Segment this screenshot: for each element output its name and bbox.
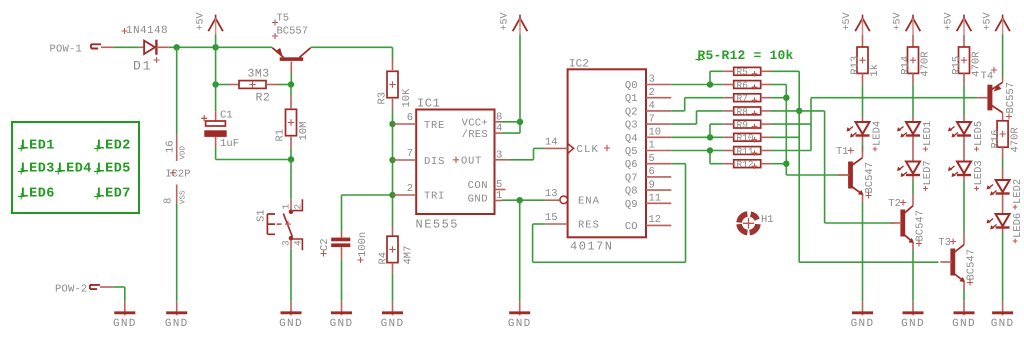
node base junction — [288, 81, 294, 87]
svg-text:16: 16 — [164, 140, 176, 153]
pin Q6 — [646, 163, 671, 165]
node R12 junction — [783, 161, 789, 167]
svg-text:10M: 10M — [298, 122, 310, 141]
pin 6 TRE — [393, 123, 417, 125]
pin Q2 — [646, 110, 671, 112]
svg-text:1: 1 — [496, 190, 502, 202]
svg-text:Q1: Q1 — [625, 93, 638, 105]
pin Q7 — [646, 176, 671, 178]
transistor T1 BC547 — [848, 162, 853, 189]
wire R15 to LED5 — [963, 84, 965, 116]
capacitor C1 1uF polarized — [215, 111, 217, 121]
node Q4 junction — [707, 134, 713, 140]
node TRI junction — [389, 192, 395, 198]
wire R8 to T2 bus — [771, 110, 825, 112]
wire R9 to T4 bus — [771, 123, 811, 125]
svg-text:GND: GND — [851, 318, 875, 330]
svg-text:TRE: TRE — [424, 120, 445, 132]
wire S1 to GND — [290, 249, 292, 301]
svg-text:IC1: IC1 — [417, 97, 440, 111]
wire OUT to CLK — [510, 159, 534, 161]
ground — [1002, 301, 1004, 315]
wire R10 lead — [771, 136, 799, 138]
wire rail to T5 emitter — [216, 46, 273, 48]
pin Q3 — [646, 123, 671, 125]
pin Q4 — [646, 136, 671, 138]
svg-text:LED1: LED1 — [21, 139, 55, 154]
svg-text:R8: R8 — [737, 106, 749, 117]
resistor R4 4M7 — [392, 195, 394, 226]
wire D1 to rail junctions — [169, 46, 216, 48]
svg-text:CO: CO — [625, 221, 638, 233]
wire R13 to LED4 — [862, 84, 864, 116]
IC2 4017N box — [568, 69, 646, 237]
wire POW-1 to D1 — [113, 46, 139, 48]
svg-text:R13: R13 — [850, 56, 862, 75]
wire R5 to T3 bus — [771, 70, 799, 72]
ground — [519, 301, 521, 315]
svg-text:R14: R14 — [900, 56, 912, 75]
svg-text:C1: C1 — [220, 110, 233, 122]
resistor R5 — [734, 67, 761, 75]
wire bus to T2 base — [825, 222, 895, 224]
svg-text:Q8: Q8 — [625, 186, 638, 198]
svg-text:R4: R4 — [378, 252, 390, 265]
ground — [963, 301, 965, 315]
wire T1 emitter to GND — [862, 202, 864, 301]
svg-text:1k: 1k — [869, 64, 881, 77]
wire GND pin to ENA — [502, 199, 545, 201]
svg-text:R5: R5 — [737, 67, 749, 78]
resistor R9 — [734, 120, 761, 128]
wire R14 to LED1 — [912, 84, 914, 116]
pin 2 TRI — [393, 194, 417, 196]
svg-text:3: 3 — [496, 149, 502, 161]
svg-text:7: 7 — [407, 148, 413, 160]
svg-text:Q6: Q6 — [625, 159, 638, 171]
svg-text:Q3: Q3 — [625, 120, 638, 132]
svg-text:R11: R11 — [737, 146, 754, 157]
wire LED6 to GND — [1002, 234, 1004, 302]
svg-text:R16: R16 — [990, 130, 1002, 149]
+5V supply symbol — [513, 18, 528, 31]
LED LED2 — [1002, 167, 1004, 180]
resistor R12 — [734, 160, 761, 168]
svg-text:4: 4 — [496, 123, 502, 135]
svg-text:8: 8 — [496, 111, 502, 123]
resistor R2 3M3 — [228, 84, 240, 86]
svg-text:R7: R7 — [737, 93, 748, 104]
svg-text:GND: GND — [165, 318, 189, 330]
svg-text:GND: GND — [991, 318, 1015, 330]
wire R12 lead — [771, 163, 786, 165]
svg-text:GND: GND — [113, 318, 137, 330]
wire R11 lead — [771, 150, 811, 152]
svg-text:9: 9 — [649, 179, 655, 191]
resistor R16 470R — [997, 121, 1008, 147]
svg-text:3M3: 3M3 — [248, 68, 270, 81]
wire C1 bottom to R1 bottom — [215, 148, 217, 160]
svg-text:7: 7 — [649, 113, 655, 125]
svg-text:GND: GND — [508, 318, 532, 330]
svg-text:LED7: LED7 — [97, 187, 131, 202]
svg-text:4: 4 — [649, 100, 655, 112]
resistor R10 — [734, 133, 761, 141]
svg-text:GND: GND — [381, 318, 405, 330]
svg-text:LED7: LED7 — [922, 160, 934, 185]
wire +5V to T4 emitter — [1002, 35, 1004, 78]
wire T3 emitter to GND — [963, 289, 965, 301]
svg-text:NE555: NE555 — [416, 218, 460, 232]
+5V supply symbol — [855, 18, 870, 31]
wire Q2 to R7 — [671, 110, 684, 112]
svg-text:LED4: LED4 — [872, 121, 884, 146]
svg-text:2: 2 — [293, 204, 304, 210]
svg-text:R2: R2 — [256, 92, 271, 105]
svg-text:BC547: BC547 — [914, 210, 926, 242]
resistor R8 — [734, 107, 761, 115]
svg-text:8: 8 — [163, 198, 175, 204]
svg-text:CON: CON — [468, 180, 488, 192]
svg-text:R3: R3 — [377, 92, 389, 105]
svg-text:IC2: IC2 — [569, 59, 589, 71]
node TRE junction — [389, 121, 395, 127]
wire T5 collector to R3 — [311, 46, 393, 48]
svg-text:2: 2 — [649, 87, 655, 99]
pin Q1 — [646, 97, 671, 99]
svg-text:1N4148: 1N4148 — [126, 25, 168, 37]
svg-text:OUT: OUT — [461, 155, 482, 167]
svg-text:+5V: +5V — [982, 12, 993, 30]
wire junction to IC2P VDD — [176, 47, 178, 134]
svg-text:LED2: LED2 — [1012, 179, 1024, 204]
svg-text:R10: R10 — [737, 133, 754, 144]
resistor R3 10k — [392, 59, 394, 70]
wire bus to T1 base — [786, 174, 850, 176]
svg-text:11: 11 — [649, 193, 662, 205]
svg-text:S1: S1 — [256, 209, 268, 222]
svg-text:IC2P: IC2P — [165, 169, 190, 181]
svg-text:+5V: +5V — [842, 12, 853, 30]
wire POW-2 to GND — [114, 286, 125, 288]
svg-text:14: 14 — [545, 137, 558, 149]
node junction VCC to +5V — [517, 119, 523, 125]
node junction at R2 left — [212, 81, 218, 87]
+5V supply symbol — [906, 18, 921, 31]
node DIS junction — [389, 157, 395, 163]
svg-text:6: 6 — [649, 166, 655, 178]
LED LED7 — [912, 149, 914, 162]
pin 15 RES — [545, 223, 567, 225]
svg-text:C2: C2 — [319, 238, 331, 251]
wire Q5 to R11/R12 — [671, 150, 723, 152]
svg-text:R12: R12 — [737, 159, 754, 170]
wire Q6 to RES net — [671, 163, 685, 165]
svg-text:VDD: VDD — [179, 145, 187, 159]
pin 3 OUT — [495, 159, 511, 161]
transistor T2 BC547 — [900, 210, 905, 237]
svg-text:BC547: BC547 — [864, 162, 876, 194]
LED LED4 — [862, 116, 864, 122]
svg-text:VSS: VSS — [178, 190, 187, 204]
ground — [176, 301, 178, 315]
svg-text:VCC+: VCC+ — [462, 117, 488, 129]
transistor T4 BC557 — [987, 85, 992, 111]
+5V supply symbol — [208, 18, 223, 31]
svg-text:3: 3 — [280, 240, 291, 246]
resistor R6 — [734, 81, 761, 89]
LED LED1 — [912, 116, 914, 122]
wire R1 node to S1 — [290, 160, 292, 200]
pin 13 ENA — [560, 196, 568, 204]
svg-text:6: 6 — [407, 112, 413, 124]
IC1 NE555 box — [416, 110, 494, 215]
svg-text:CLK: CLK — [577, 144, 600, 156]
svg-text:Q9: Q9 — [625, 199, 638, 211]
svg-text:GND: GND — [901, 318, 925, 330]
+5V supply symbol — [995, 18, 1010, 31]
node junction R1/C1/S1 — [288, 156, 294, 162]
svg-text:ENA: ENA — [578, 196, 600, 208]
svg-text:3: 3 — [649, 74, 655, 86]
wire T2 emitter to GND — [912, 250, 914, 301]
svg-text:LED3: LED3 — [21, 162, 55, 177]
svg-text:4017N: 4017N — [570, 240, 614, 254]
pin 12 CO — [646, 224, 671, 226]
svg-text:R1: R1 — [274, 129, 286, 142]
wire Q4 to R9/R10 — [671, 136, 723, 138]
svg-text:Q7: Q7 — [625, 172, 638, 184]
svg-text:T4: T4 — [981, 71, 994, 83]
svg-text:+5V: +5V — [944, 12, 955, 30]
pin 8 VCC+ — [495, 121, 503, 123]
svg-text:15: 15 — [545, 212, 558, 224]
svg-text:LED1: LED1 — [922, 121, 934, 146]
diode D1 1N4148 — [139, 46, 144, 48]
svg-text:1: 1 — [280, 204, 291, 210]
svg-text:100n: 100n — [357, 232, 369, 257]
pin 4 /RES — [495, 132, 503, 134]
IC2P power pins VDD/VSS — [176, 134, 178, 161]
wire LED4 to T1 collector — [862, 142, 864, 152]
green info box LED1-LED7 — [12, 122, 139, 213]
svg-text:R15: R15 — [951, 56, 963, 75]
svg-text:1: 1 — [649, 140, 655, 152]
ground — [124, 301, 126, 315]
svg-text:H1: H1 — [761, 214, 774, 226]
resistor R7 — [734, 94, 761, 102]
wire bus to T4 base — [811, 97, 977, 99]
ground — [862, 301, 864, 315]
wire RES to Q6 — [533, 223, 546, 225]
svg-text:BC547: BC547 — [965, 249, 977, 281]
svg-text:D1: D1 — [133, 59, 153, 74]
wire R16 to LED2 — [1002, 158, 1004, 167]
svg-text:LED2: LED2 — [97, 139, 131, 154]
node Q5 junction — [707, 147, 713, 153]
svg-text:/RES: /RES — [462, 129, 488, 141]
resistor R11 — [734, 147, 761, 155]
svg-text:BC557: BC557 — [1005, 82, 1017, 114]
wire LED7 to T2 collector — [912, 181, 914, 194]
ground — [392, 301, 394, 315]
node Q0 junction — [707, 81, 713, 87]
svg-text:12: 12 — [649, 214, 662, 226]
svg-text:T1: T1 — [836, 146, 849, 158]
LED LED5 — [963, 116, 965, 122]
pin 7 DIS — [393, 159, 417, 161]
resistor R1 10M — [290, 85, 292, 97]
pin Q5 — [646, 150, 671, 152]
svg-text:R9: R9 — [737, 120, 749, 131]
wire T5 base to R2 node — [290, 73, 292, 85]
wire to GND symbol — [519, 200, 521, 301]
svg-text:TRI: TRI — [424, 191, 445, 203]
svg-text:LED4: LED4 — [58, 162, 92, 177]
svg-text:T5: T5 — [277, 13, 290, 25]
svg-text:R5-R12 = 10k: R5-R12 = 10k — [698, 48, 794, 63]
svg-text:10: 10 — [649, 127, 662, 139]
node junction after D1 — [174, 44, 180, 50]
LED LED3 — [963, 149, 965, 162]
svg-text:+5V: +5V — [893, 12, 904, 30]
switch S1 — [290, 199, 292, 209]
wire R3 to TRE/DIS/TRI — [392, 110, 394, 195]
svg-text:GND: GND — [279, 318, 303, 330]
svg-text:GND: GND — [330, 318, 354, 330]
wire LED3 to T3 collector — [963, 181, 965, 233]
svg-text:POW-2: POW-2 — [55, 284, 88, 296]
svg-text:2: 2 — [407, 183, 413, 195]
svg-text:LED6: LED6 — [1012, 213, 1024, 238]
node R7 junction — [783, 95, 789, 101]
node R8 junction — [796, 108, 802, 114]
svg-text:BC557: BC557 — [277, 26, 309, 38]
svg-text:LED6: LED6 — [21, 187, 55, 202]
svg-text:13: 13 — [545, 188, 558, 200]
svg-text:4M7: 4M7 — [403, 246, 415, 265]
wire Q3 to R8 — [671, 123, 696, 125]
pin Q8 — [646, 189, 671, 191]
svg-text:Q0: Q0 — [625, 80, 638, 92]
svg-text:5: 5 — [649, 153, 655, 165]
svg-text:DIS: DIS — [424, 156, 445, 168]
svg-text:10K: 10K — [401, 88, 413, 108]
svg-text:LED5: LED5 — [97, 162, 131, 177]
svg-text:470R: 470R — [920, 51, 932, 77]
ground — [290, 301, 292, 315]
svg-text:GND: GND — [952, 318, 976, 330]
svg-text:+5V: +5V — [500, 12, 511, 30]
svg-text:T3: T3 — [938, 237, 951, 249]
pin 5 CON — [495, 189, 506, 191]
wire R7 lead — [771, 97, 786, 99]
transistor T3 BC547 — [950, 249, 955, 276]
svg-text:470R: 470R — [1009, 127, 1021, 153]
svg-text:+5V: +5V — [195, 12, 206, 30]
node junction GND/ENA — [517, 197, 523, 203]
svg-text:Q2: Q2 — [625, 106, 638, 118]
svg-text:GND: GND — [468, 194, 488, 206]
pin 14 CLK — [545, 147, 567, 149]
wire bus to T3 base — [799, 261, 938, 263]
pin 1 GND — [495, 200, 503, 202]
wire Q0 to R5/R6 — [671, 84, 723, 86]
ground — [912, 301, 914, 315]
svg-text:R6: R6 — [737, 80, 749, 91]
svg-text:LED5: LED5 — [973, 121, 985, 146]
LED LED6 — [1002, 204, 1004, 215]
svg-text:RES: RES — [578, 220, 600, 232]
pin Q9 — [646, 202, 671, 204]
pin Q0 — [646, 84, 671, 86]
svg-text:4: 4 — [293, 240, 304, 246]
transistor T5 BC557 — [280, 57, 304, 61]
capacitor C2 100n — [341, 232, 343, 238]
ground — [341, 301, 343, 315]
mounting hole H1 — [750, 224, 758, 233]
svg-text:LED3: LED3 — [973, 160, 985, 185]
node junction at +5V tap — [212, 44, 218, 50]
svg-text:POW-1: POW-1 — [50, 44, 83, 56]
svg-text:T2: T2 — [888, 198, 901, 210]
wire +5V tap down to C1 — [215, 47, 217, 84]
+5V supply symbol — [957, 18, 972, 31]
wire R6 to T1 bus — [771, 84, 786, 86]
svg-text:1uF: 1uF — [220, 138, 239, 150]
wire TRI node to C2 — [342, 194, 393, 196]
svg-text:Q4: Q4 — [625, 133, 638, 145]
svg-text:Q5: Q5 — [625, 146, 638, 158]
